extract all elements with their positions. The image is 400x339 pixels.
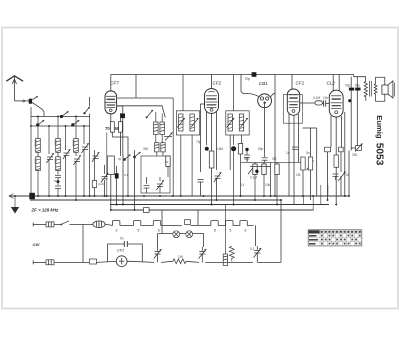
wire x168	[167, 166, 169, 177]
wire loop2 feed from bus	[161, 210, 163, 234]
wire bus B4	[110, 209, 314, 211]
wire grid line y98	[117, 97, 173, 99]
wire K1 down	[110, 175, 112, 211]
wire to choke	[205, 261, 223, 263]
wire vertical x281 down	[280, 200, 282, 262]
resistor R13 pill	[325, 147, 331, 200]
svg-text:1W: 1W	[178, 255, 183, 259]
wire osc coil top	[156, 112, 162, 122]
resistor R2 value 70	[110, 122, 128, 150]
capacitor C7 blob on bus	[252, 72, 257, 77]
resistor R8	[262, 162, 266, 196]
coil T1 primary zigzag	[364, 82, 367, 101]
capacitor C11 fat plates	[355, 77, 360, 146]
wire screen feed x136	[135, 75, 137, 99]
svg-text:5: 5	[138, 229, 140, 233]
wire screen line y105.5	[117, 106, 165, 118]
svg-text:1M: 1M	[296, 173, 301, 177]
capacitor C17	[244, 151, 250, 162]
trimmer CT13	[164, 133, 173, 141]
wire heater bumps 2	[191, 221, 254, 226]
svg-text:ZF = 128 kHz: ZF = 128 kHz	[31, 208, 60, 213]
wire vertical x83	[82, 225, 84, 263]
wire L7 to L9	[156, 135, 162, 143]
tube CF7	[105, 91, 117, 114]
trimmer CT8	[227, 118, 235, 128]
wire x316.7	[316, 128, 318, 196]
tube CF2	[205, 89, 219, 114]
capacitor C9	[322, 100, 329, 106]
wire right verticals B1-B3	[303, 185, 328, 210]
wire CF7 anode up	[110, 75, 112, 92]
wire top bus	[111, 74, 354, 76]
wire osc vertical x128	[127, 150, 129, 196]
box CF1 socket	[283, 95, 302, 124]
resistor R16 w arrow	[351, 144, 363, 152]
wire L1-L2	[37, 152, 39, 157]
junction dots on buses	[14, 195, 350, 211]
wire osc box feeds	[157, 152, 163, 156]
trimmer CT2d	[92, 150, 99, 181]
wire CF1 pins down	[289, 114, 299, 205]
capacitor C18	[292, 147, 298, 149]
wire vertical x58	[57, 117, 59, 139]
trimmer CT6	[191, 118, 199, 128]
svg-text:5: 5	[230, 229, 232, 233]
meter M1	[92, 181, 96, 197]
svg-text:6: 6	[158, 229, 160, 233]
capacitor C5	[144, 177, 150, 193]
resistor R21 zigzag vertical	[229, 246, 234, 261]
wire CB1 right	[271, 94, 275, 97]
trimmer CT12	[338, 172, 346, 197]
svg-text:CB1: CB1	[259, 81, 268, 86]
resistor R20 zigzag	[173, 259, 186, 264]
trimmer CT1	[46, 126, 53, 196]
capacitor C3 blob	[117, 106, 125, 155]
lamp E2	[173, 231, 180, 238]
wire plate to R12	[300, 102, 315, 104]
wire zigzag to C15	[186, 261, 199, 262]
switch S5	[54, 221, 93, 226]
wire heater bumps 1	[112, 221, 181, 226]
trimmer CT3	[101, 165, 108, 196]
svg-text:70p: 70p	[196, 140, 202, 144]
switch S4	[146, 110, 153, 118]
capacitor C6	[198, 180, 204, 197]
wire CF7 pin1	[110, 114, 112, 122]
svg-text:5n: 5n	[306, 151, 310, 155]
resistor R17 on B4	[144, 208, 150, 213]
coil L3	[56, 139, 61, 153]
wire vertical x38	[37, 117, 39, 139]
svg-text:0,1: 0,1	[250, 247, 255, 251]
svg-text:10n: 10n	[323, 96, 329, 100]
capacitor C1 (antenna coupling, black blob)	[29, 99, 32, 104]
svg-text:2M: 2M	[272, 157, 277, 161]
plug P2	[46, 260, 54, 265]
wire bus B1	[9, 194, 349, 199]
wire CB1 feed	[241, 75, 259, 97]
svg-text:CL2: CL2	[327, 81, 336, 86]
wire loop2 left	[157, 234, 159, 248]
wire x173	[172, 98, 174, 196]
coil L9	[155, 143, 159, 152]
trimmer C14	[154, 248, 162, 263]
coil L1	[36, 139, 41, 153]
tube CF1	[287, 89, 299, 115]
mains terminal top	[32, 223, 34, 227]
box IFT1	[176, 111, 199, 135]
svg-text:60: 60	[346, 173, 350, 177]
wire vertical x89.6	[89, 114, 91, 197]
svg-text:70: 70	[105, 126, 110, 131]
svg-text:CF1: CF1	[117, 249, 124, 253]
trimmer CT2c	[81, 126, 88, 196]
coil L15 choke	[223, 254, 227, 266]
table cell figures	[321, 231, 361, 245]
wire secondary loop	[376, 77, 385, 85]
svg-text:Eumig: Eumig	[375, 115, 384, 139]
svg-text:1n: 1n	[286, 151, 290, 155]
coil L5	[74, 139, 79, 153]
capacitor C2 stack	[55, 171, 61, 196]
svg-text:0,1: 0,1	[124, 173, 129, 177]
svg-text:0,1M: 0,1M	[313, 96, 320, 100]
wire IFT2 feed from bus	[233, 75, 235, 111]
wire vertical x31	[30, 107, 32, 196]
lamp CF1 dial	[116, 256, 127, 267]
svg-text:CF7: CF7	[110, 81, 119, 86]
svg-text:50p: 50p	[345, 83, 351, 87]
switch S3	[134, 150, 141, 210]
wire link y128	[303, 127, 317, 129]
wire IFT1 bottom left	[180, 135, 182, 196]
wire choke to C16	[228, 261, 253, 263]
resistor R19	[90, 259, 117, 264]
wire IFT1 feed from bus	[182, 75, 184, 111]
wire lamp to S6	[127, 261, 154, 262]
wire to zigzag	[161, 261, 173, 262]
wire heater feed from bus	[197, 210, 199, 225]
resistor R14 pill	[339, 147, 344, 172]
junction blob J5	[245, 148, 248, 151]
svg-text:0,1: 0,1	[240, 183, 245, 187]
wire heater drop	[255, 225, 257, 246]
ground GND	[11, 196, 19, 214]
capacitor C8	[262, 152, 268, 162]
svg-text:0,5M: 0,5M	[216, 147, 223, 151]
svg-text:50: 50	[115, 126, 120, 131]
svg-text:2000: 2000	[72, 140, 76, 147]
svg-text:50: 50	[165, 160, 169, 164]
wire L2 to bus	[37, 171, 39, 196]
svg-text:CF2: CF2	[213, 81, 222, 86]
svg-text:5n: 5n	[120, 237, 124, 241]
tube CB1	[258, 94, 272, 108]
coil L10	[161, 143, 165, 152]
potentiometer P1 disc	[231, 146, 236, 204]
mains terminal bottom	[32, 261, 34, 265]
resistor R15 tall	[334, 155, 339, 205]
wire bus B3	[110, 204, 329, 206]
svg-text:0,1M: 0,1M	[250, 176, 257, 180]
coil L12	[190, 114, 194, 131]
svg-text:3: 3	[116, 229, 118, 233]
coil L7 osc	[154, 122, 159, 135]
wire CL2 anode up	[333, 75, 339, 91]
wire band bus H2	[31, 125, 90, 127]
capacitor C19	[333, 174, 339, 180]
lamp E3	[186, 231, 193, 238]
wire CF2 grid left	[201, 104, 205, 172]
switch S1c right column	[83, 97, 90, 114]
wire loop1	[108, 244, 143, 262]
trimmer C16	[254, 246, 262, 262]
capacitor C13 on loop1	[123, 241, 130, 247]
trimmer CT9	[240, 118, 248, 128]
capacitor C4 blob	[115, 166, 119, 205]
wire bus B2	[30, 199, 282, 201]
wire mains bottom	[33, 261, 46, 263]
wire AF line	[250, 166, 271, 168]
resistor R18 in heater line	[185, 220, 191, 225]
trimmer CT2b	[73, 152, 80, 200]
wire AGC line	[241, 161, 304, 163]
junction blob J6	[348, 99, 351, 102]
coil L8 osc	[160, 122, 165, 135]
wire CF2 anode up	[211, 75, 213, 89]
svg-text:10k: 10k	[265, 183, 271, 187]
capacitor C10 fat plates	[349, 77, 354, 151]
wire to vertical	[54, 261, 89, 263]
resistor R7	[253, 162, 257, 200]
junction blob J4	[255, 170, 258, 173]
wire loop2	[158, 234, 204, 248]
junction dot J2 with switch	[71, 120, 79, 127]
resistor R6	[238, 144, 242, 197]
wire L3-L4	[57, 152, 59, 157]
coil L14	[239, 114, 243, 131]
fuse F1	[46, 222, 54, 227]
svg-text:250: 250	[352, 153, 358, 157]
trimmer CT4	[156, 177, 163, 193]
svg-text:300: 300	[143, 147, 149, 151]
wire secondary loop bottom	[376, 94, 385, 101]
resistor R9	[275, 162, 279, 204]
resistor R12 pill	[315, 101, 322, 105]
lamp E1 oval	[93, 221, 105, 228]
wire IFT2 bottom right	[241, 135, 243, 144]
wire bus drop x275	[274, 75, 276, 197]
wire x270	[270, 162, 272, 196]
switch S2	[123, 155, 131, 205]
resistor R11	[308, 128, 312, 200]
wire mains top	[33, 224, 46, 226]
svg-text:CF1: CF1	[296, 81, 305, 86]
wire choke feed from bus	[224, 205, 226, 255]
wire CF2 pins down	[207, 112, 217, 170]
svg-text:70p: 70p	[245, 77, 251, 81]
junction dots H1 H2	[30, 116, 85, 127]
svg-text:30: 30	[118, 157, 122, 161]
svg-text:500: 500	[34, 159, 38, 164]
junction dot J1 with switch	[36, 120, 44, 127]
wire band bus H1	[31, 116, 90, 118]
coil T1 secondary zigzag	[374, 84, 377, 95]
wire CF1 anode up	[291, 75, 293, 90]
resistor R10	[301, 157, 305, 196]
wire CL2 pins down	[331, 112, 345, 196]
wire to band line	[32, 103, 44, 117]
svg-text:2000: 2000	[34, 140, 38, 147]
resistor R3 value 50	[119, 113, 123, 156]
antenna A1	[6, 76, 23, 101]
box IFT2	[226, 111, 249, 135]
switch S1a	[25, 96, 38, 101]
switch S1b on H1	[60, 111, 69, 118]
component box K1	[107, 156, 114, 175]
coil L13	[228, 114, 232, 131]
svg-text:500: 500	[54, 159, 58, 164]
svg-text:500: 500	[54, 140, 58, 145]
box oscillator	[141, 156, 170, 193]
wire vertical x76	[75, 117, 77, 139]
resistor R4	[166, 156, 170, 167]
core T1	[370, 81, 372, 97]
coil L2 below L1	[36, 157, 41, 171]
junction blob J3	[205, 147, 209, 151]
trimmer C15	[199, 247, 207, 262]
svg-text:5053: 5053	[374, 143, 385, 166]
tube CL2	[329, 90, 343, 117]
trimmer CT10	[248, 165, 256, 175]
wire bottom rail right	[257, 261, 281, 263]
wire IFT2 center tap	[233, 135, 235, 145]
wire antenna to C1	[14, 100, 22, 102]
svg-text:6: 6	[245, 229, 247, 233]
trimmer CT7	[214, 172, 221, 200]
wire CB1 cathode down	[264, 108, 266, 153]
svg-text:50p: 50p	[355, 83, 361, 87]
trimmer CT5	[177, 118, 185, 128]
wire IFT1 bottom right	[191, 135, 193, 196]
wire right drop x349	[348, 151, 350, 197]
wire heater chain	[105, 224, 112, 225]
coil L4	[56, 157, 61, 171]
table row labels	[309, 235, 318, 245]
capacitor C12 blob	[29, 193, 35, 199]
svg-text:5p: 5p	[54, 179, 58, 183]
svg-text:8: 8	[214, 229, 216, 233]
svg-text:50p: 50p	[258, 147, 264, 151]
wire IFT2 bottom left	[229, 135, 231, 170]
trimmer CT11	[307, 161, 314, 171]
coil L11	[179, 114, 183, 131]
wire top bus extension	[354, 75, 366, 82]
trimmer CT2	[63, 126, 70, 196]
resistor R5	[209, 151, 214, 205]
wire R2 down left	[106, 132, 108, 196]
connector circle	[23, 100, 25, 102]
